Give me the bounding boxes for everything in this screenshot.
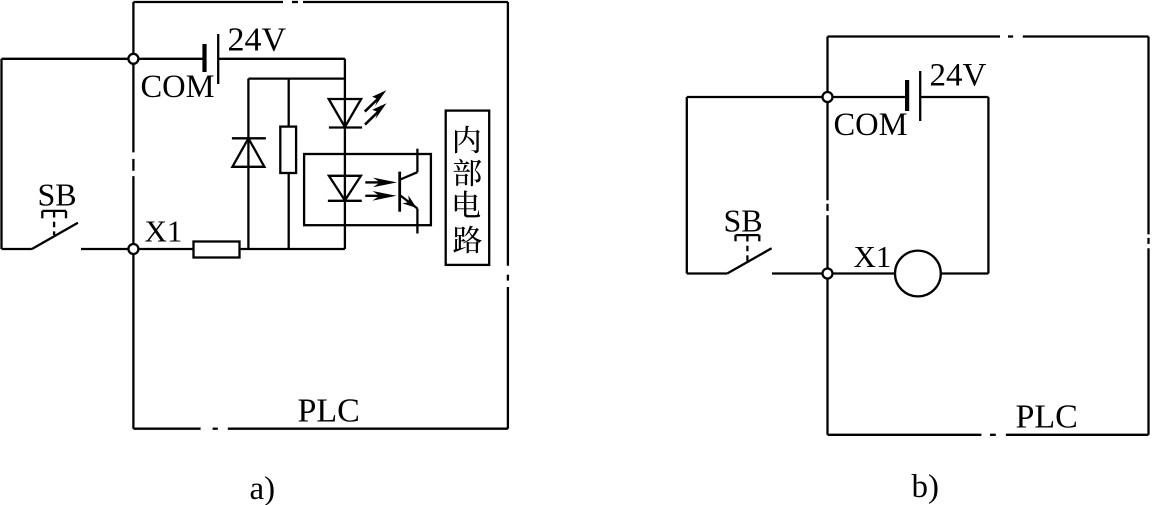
svg-text:SB: SB (724, 203, 763, 239)
svg-text:PLC: PLC (1016, 399, 1078, 436)
svg-text:COM: COM (141, 69, 215, 105)
svg-text:COM: COM (834, 107, 908, 143)
svg-text:a): a) (250, 471, 276, 505)
svg-text:SB: SB (38, 177, 77, 213)
svg-text:24V: 24V (228, 22, 287, 59)
svg-text:24V: 24V (930, 58, 987, 94)
svg-text:b): b) (912, 469, 940, 505)
svg-text:X1: X1 (145, 214, 183, 249)
svg-text:PLC: PLC (298, 393, 360, 430)
svg-text:X1: X1 (854, 239, 892, 274)
